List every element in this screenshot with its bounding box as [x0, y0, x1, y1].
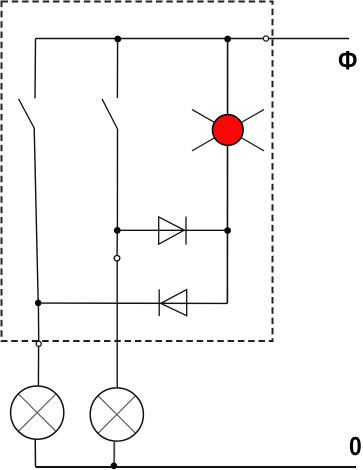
diode VD2 (pointing left) — [159, 289, 187, 316]
dashed enclosure border — [2, 2, 273, 342]
junction dot middle diode node — [114, 227, 121, 234]
wire: middle branch drop to switch — [116, 39, 118, 99]
svg-text:0: 0 — [349, 431, 362, 461]
wire: left branch drop to switch — [34, 39, 37, 99]
wire: middle branch terminal down across lower wire and border to lamp HL2 — [116, 261, 118, 388]
lamp HL2 cross — [98, 396, 136, 434]
svg-text:Ф: Ф — [338, 46, 357, 76]
indicator lamp HL3 (red) — [213, 115, 244, 146]
wire: left branch from switch down to lower node — [34, 128, 38, 303]
terminal (open circle) middle branch — [114, 255, 120, 261]
wire: bottom neutral bus y=467 — [36, 466, 357, 468]
junction dot top middle — [114, 36, 121, 43]
wire: top phase bus y=38.5 from left corner to right end — [36, 38, 350, 40]
wire: right branch vertical through indicator lamp down to corner — [226, 39, 228, 304]
wire: left branch border to lamp HL1 — [37, 347, 39, 387]
junction dot right diode node — [224, 227, 231, 234]
terminal (open circle) at border, left branch — [36, 341, 41, 346]
indicator lamp HL3 rays — [192, 110, 264, 151]
wire: middle branch node to terminal circle — [116, 230, 118, 255]
junction dot left lower node — [35, 300, 42, 307]
wire: lamp HL1 to bottom bus corner — [34, 440, 36, 467]
wire: left branch to border terminal — [37, 303, 39, 341]
terminal (open circle) on top bus — [263, 36, 268, 41]
wire: lamp HL2 bottom lead to neutral bus — [113, 441, 115, 466]
wire: lower diode row y=303.3 from left node to right corner — [38, 302, 227, 304]
wire: middle branch switch to diode node — [116, 129, 118, 230]
junction dot on neutral bus — [111, 463, 118, 470]
lamp HL1 cross — [18, 394, 56, 432]
junction dot top right — [224, 36, 231, 43]
wire: upper diode row y=230.3 — [117, 229, 227, 231]
switch SA1 blade (open contact) — [19, 99, 35, 128]
lamp HL1 circle — [11, 386, 64, 439]
diode VD1 (anode left, pointing right) — [159, 217, 186, 245]
switch SA2 blade (open contact) — [102, 99, 118, 129]
lamp HL2 circle — [90, 388, 143, 441]
